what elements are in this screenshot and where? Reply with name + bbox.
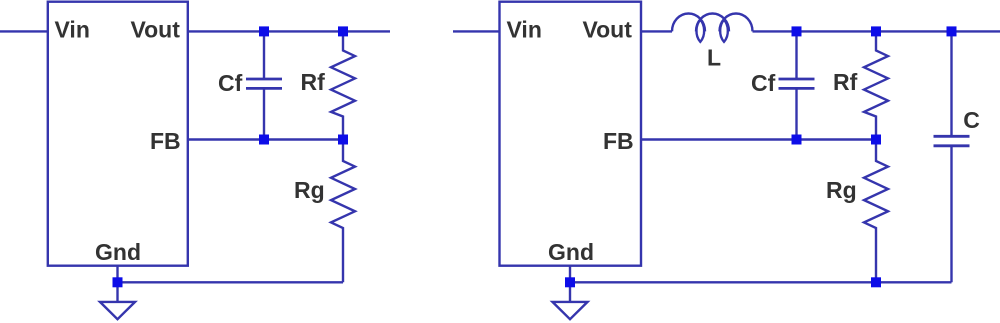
- svg-text:Rf: Rf: [301, 69, 326, 95]
- wire: Vout pin to inductor (right): [641, 30, 672, 32]
- junction: Vout/Rf (left): [338, 26, 348, 36]
- svg-text:Rg: Rg: [826, 177, 857, 203]
- svg-text:Rg: Rg: [294, 177, 325, 203]
- resistor Rg (right): [864, 140, 888, 283]
- wire: ground bus (right): [570, 281, 952, 283]
- wire: FB net (left): [188, 138, 343, 140]
- junction: FB/Cf (left): [259, 135, 269, 145]
- wire: ground bus (left): [118, 281, 344, 283]
- svg-text:Cf: Cf: [218, 70, 243, 96]
- junction: Gnd (right): [565, 277, 575, 287]
- svg-text:Gnd: Gnd: [548, 239, 594, 265]
- resistor Rf (left): [331, 31, 355, 139]
- wire: FB net (right): [641, 138, 876, 140]
- wire: Gnd pin to ground symbol (left): [116, 266, 118, 302]
- inductor L: [672, 14, 753, 42]
- svg-text:Vout: Vout: [131, 17, 181, 43]
- svg-text:Vin: Vin: [507, 17, 542, 43]
- ground symbol (left): [100, 302, 135, 319]
- svg-text:Vout: Vout: [583, 17, 633, 43]
- svg-text:L: L: [707, 45, 721, 71]
- regulator U1 box (left): [48, 2, 188, 266]
- junction: Vout/Rf (right): [871, 26, 881, 36]
- wire: input to Vin pin (left circuit): [0, 30, 48, 32]
- regulator U2 box (right): [500, 2, 642, 266]
- junction: Rg/ground bus (right): [871, 277, 881, 287]
- wire: inductor to output (right): [753, 30, 1000, 32]
- capacitor Cf (left): [246, 31, 282, 139]
- ground symbol (right): [553, 302, 588, 319]
- svg-text:Rf: Rf: [833, 69, 858, 95]
- svg-text:Cf: Cf: [751, 70, 776, 96]
- junction: Vout/Cf (right): [792, 26, 802, 36]
- svg-text:Gnd: Gnd: [95, 239, 141, 265]
- svg-text:FB: FB: [603, 128, 634, 154]
- capacitor C (output, right): [934, 31, 970, 282]
- svg-text:FB: FB: [150, 128, 181, 154]
- junction: FB/Rf/Rg (left): [338, 135, 348, 145]
- resistor Rg (left): [331, 140, 355, 283]
- junction: FB/Rf/Rg (right): [871, 135, 881, 145]
- junction: FB/Cf (right): [792, 135, 802, 145]
- resistor Rf (right): [864, 31, 888, 139]
- junction: Vout/C (right): [947, 26, 957, 36]
- capacitor Cf (right): [779, 31, 815, 139]
- junction: Gnd (left): [113, 277, 123, 287]
- junction: Vout/Cf (left): [259, 26, 269, 36]
- svg-text:Vin: Vin: [55, 17, 90, 43]
- svg-text:C: C: [963, 107, 980, 133]
- wire: input to Vin pin (right circuit): [453, 30, 500, 32]
- wire: Gnd pin to ground symbol (right): [569, 266, 571, 302]
- wire: Vout net (left): [188, 30, 390, 32]
